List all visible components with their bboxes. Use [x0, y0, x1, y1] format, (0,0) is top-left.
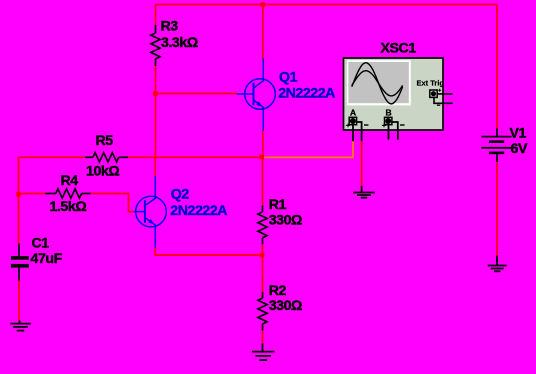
- scope connector Ext Trig: [430, 89, 441, 105]
- wire R3 bottom to base node: [155, 66, 157, 94]
- resistor R4: [45, 189, 90, 198]
- wire V1 to ground: [496, 162, 498, 256]
- transistor Q1: [237, 59, 276, 131]
- svg-text:Ext Trig: Ext Trig: [417, 79, 445, 88]
- svg-text:C1: C1: [32, 235, 50, 251]
- wire R3 top lead: [155, 5, 157, 26]
- svg-text:330Ω: 330Ω: [269, 298, 302, 314]
- svg-text:A: A: [350, 108, 356, 118]
- wire Q1 base: [155, 93, 237, 95]
- svg-text:47uF: 47uF: [31, 251, 63, 267]
- svg-text:6V: 6V: [511, 141, 528, 157]
- svg-text:Q2: Q2: [171, 186, 190, 202]
- svg-text:V1: V1: [510, 126, 527, 142]
- ground (R2): [252, 344, 275, 361]
- svg-text:3.3kΩ: 3.3kΩ: [161, 35, 198, 51]
- wire R1 top lead: [262, 157, 264, 205]
- node junction Q1 base / R3: [153, 91, 158, 96]
- wire left column: [18, 157, 20, 244]
- wire Q1 collector: [262, 5, 264, 60]
- node junction top collector: [261, 2, 266, 7]
- svg-text:2N2222A: 2N2222A: [170, 203, 227, 219]
- svg-text:XSC1: XSC1: [381, 40, 417, 56]
- svg-text:R3: R3: [161, 18, 179, 34]
- wire right rail to V1: [496, 5, 498, 130]
- scope pin B-: [392, 122, 398, 140]
- ground (C1): [10, 320, 31, 330]
- scope Ext Trig pins: [434, 94, 453, 103]
- wire Q1 emitter: [262, 131, 264, 158]
- node junction R5 / R1 / scope: [260, 155, 265, 160]
- transistor Q2: [134, 176, 167, 248]
- svg-text:10kΩ: 10kΩ: [86, 163, 119, 179]
- scope pin A-: [357, 122, 362, 141]
- svg-text:1.5kΩ: 1.5kΩ: [50, 199, 87, 215]
- scope trace A: [352, 63, 403, 104]
- node junction emitter / divider: [260, 253, 265, 258]
- wire R1 bottom lead: [262, 244, 264, 255]
- wire R2 bottom lead: [262, 324, 264, 344]
- svg-text:R4: R4: [61, 173, 79, 189]
- resistor R5: [85, 153, 128, 162]
- svg-text:2N2222A: 2N2222A: [278, 85, 335, 101]
- wire C1 bottom lead: [18, 280, 20, 321]
- ground (V1): [488, 256, 507, 272]
- oscilloscope XSC1: [344, 58, 444, 130]
- wire R2 top lead: [262, 255, 264, 298]
- wire top rail: [156, 4, 498, 6]
- svg-text:Q1: Q1: [279, 69, 298, 85]
- ground (scope A-): [353, 186, 375, 198]
- wire R4 row: [19, 194, 135, 212]
- scope connector A: [346, 117, 369, 127]
- wire Q2 emitter to divider node: [155, 247, 262, 255]
- svg-text:R2: R2: [269, 283, 287, 299]
- node junction R4 tee: [16, 192, 21, 197]
- wire base node down to R5 rail: [155, 94, 157, 158]
- resistor R3: [151, 25, 160, 66]
- scope pin B+: [388, 124, 390, 139]
- svg-text:330Ω: 330Ω: [269, 213, 302, 229]
- svg-text:R5: R5: [96, 133, 114, 149]
- wire Q2 collector: [154, 157, 156, 176]
- wire scope A- to ground: [361, 140, 363, 186]
- wire scope A+ probe (orange): [263, 141, 354, 158]
- svg-text:B: B: [386, 108, 392, 118]
- scope trace B: [352, 71, 403, 96]
- battery V1: [482, 129, 512, 162]
- capacitor C1: [11, 244, 29, 281]
- svg-text:R1: R1: [269, 197, 287, 213]
- wire R5 rail: [19, 156, 263, 158]
- resistor R2: [258, 292, 267, 331]
- scope connector B: [382, 117, 405, 127]
- scope pin A+: [352, 124, 354, 141]
- resistor R1: [258, 206, 267, 245]
